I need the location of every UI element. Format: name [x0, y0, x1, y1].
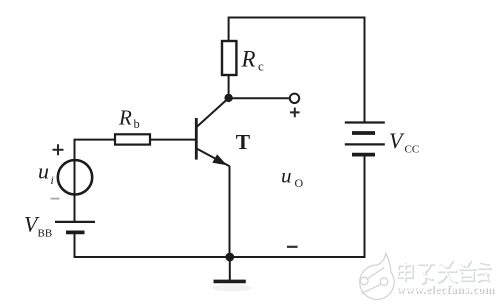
svg-text:BB: BB: [38, 228, 53, 240]
svg-text:c: c: [258, 59, 264, 74]
svg-text:R: R: [118, 105, 132, 129]
svg-text:CC: CC: [405, 144, 420, 156]
svg-text:i: i: [51, 173, 54, 187]
svg-text:V: V: [389, 128, 405, 153]
svg-text:u: u: [38, 159, 49, 184]
svg-text:O: O: [295, 176, 304, 190]
svg-text:u: u: [281, 164, 292, 188]
svg-text:www.elecfans.com: www.elecfans.com: [396, 284, 494, 296]
svg-text:b: b: [134, 117, 140, 131]
svg-text:R: R: [241, 47, 256, 72]
svg-text:T: T: [236, 130, 251, 154]
